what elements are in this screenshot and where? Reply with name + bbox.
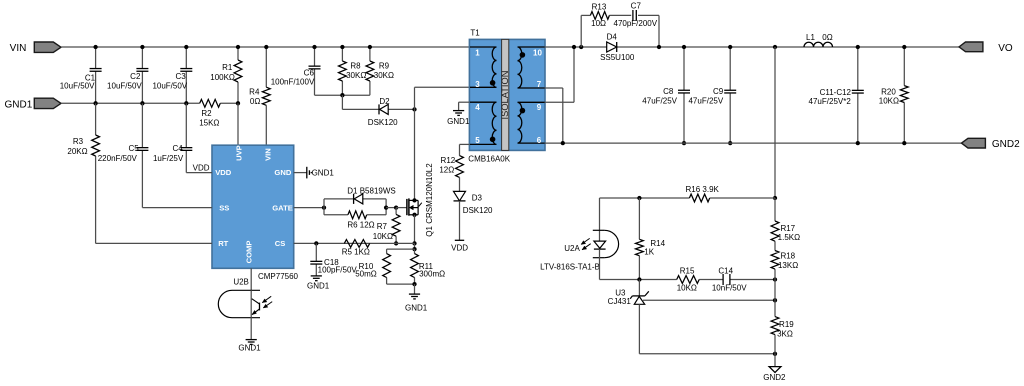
node sense gnd bbox=[412, 282, 416, 286]
svg-text:100pF/50V: 100pF/50V bbox=[318, 265, 358, 274]
svg-text:10uF/50V: 10uF/50V bbox=[152, 82, 187, 91]
svg-text:ISOLATION: ISOLATION bbox=[500, 71, 510, 120]
svg-text:R19: R19 bbox=[779, 320, 794, 329]
svg-text:10KΩ: 10KΩ bbox=[879, 97, 899, 106]
wire COMP bbox=[250, 268, 252, 290]
opto transistor U2B bbox=[218, 277, 272, 317]
resistor R7 bbox=[373, 208, 400, 244]
svg-text:SS: SS bbox=[219, 203, 229, 212]
wire VDD bbox=[186, 163, 212, 172]
svg-text:100KΩ: 100KΩ bbox=[210, 73, 235, 82]
wire snubber bbox=[581, 15, 659, 47]
capacitor C18 bbox=[310, 243, 357, 275]
node GND2-C11 bbox=[856, 141, 860, 145]
svg-text:CJ431: CJ431 bbox=[608, 297, 632, 306]
resistor R4 bbox=[249, 47, 270, 145]
svg-text:R8: R8 bbox=[350, 61, 361, 70]
transformer T1 body bbox=[468, 28, 545, 163]
resistor R12 bbox=[439, 156, 463, 178]
wire pin7 down bbox=[545, 88, 563, 143]
node VIN-C2 bbox=[140, 45, 144, 49]
node GND2-C9 bbox=[728, 141, 732, 145]
svg-text:R17: R17 bbox=[780, 224, 795, 233]
wire U2A anode bbox=[599, 198, 601, 241]
svg-text:1.5KΩ: 1.5KΩ bbox=[778, 233, 800, 242]
svg-text:U2A: U2A bbox=[564, 244, 580, 253]
port GND2 bbox=[962, 138, 1021, 150]
node R8 bottom bbox=[340, 93, 344, 97]
svg-text:R7: R7 bbox=[377, 222, 388, 231]
node VIN-R8 bbox=[340, 45, 344, 49]
svg-text:GND: GND bbox=[274, 168, 291, 177]
capacitor C8 bbox=[642, 47, 690, 143]
svg-text:R4: R4 bbox=[249, 87, 260, 96]
wire pin5 bbox=[460, 144, 470, 155]
svg-text:LTV-816S-TA1-B: LTV-816S-TA1-B bbox=[540, 262, 600, 271]
wire SS bbox=[142, 207, 212, 209]
svg-text:0Ω: 0Ω bbox=[250, 97, 260, 106]
ground GND2 symbol bbox=[763, 367, 786, 383]
pin 5 bbox=[475, 136, 480, 145]
node snubber left bbox=[579, 45, 583, 49]
ground GND1 under R11 bbox=[405, 284, 428, 313]
svg-text:R9: R9 bbox=[379, 61, 390, 70]
capacitor C3 bbox=[152, 47, 192, 103]
wire VIN rail bbox=[61, 46, 469, 48]
node GND2-C8 bbox=[682, 141, 686, 145]
svg-text:10uF/50V: 10uF/50V bbox=[107, 82, 142, 91]
node R14 top bbox=[637, 196, 641, 200]
svg-text:R16 3.9K: R16 3.9K bbox=[686, 185, 720, 194]
svg-text:VIN: VIN bbox=[263, 148, 272, 161]
svg-text:47uF/25V: 47uF/25V bbox=[642, 96, 677, 105]
node R7-CS bbox=[394, 241, 398, 245]
svg-text:R5 1KΩ: R5 1KΩ bbox=[342, 248, 370, 257]
wire D1 branch bbox=[324, 198, 386, 200]
svg-text:R6 12Ω: R6 12Ω bbox=[347, 220, 374, 229]
wire gate to R7 bbox=[386, 207, 396, 209]
wire CS bbox=[294, 242, 415, 244]
transistor Q1 bbox=[407, 163, 434, 237]
wire GATE bbox=[294, 207, 324, 209]
diode D2 bbox=[368, 97, 398, 127]
svg-text:R2: R2 bbox=[201, 109, 212, 118]
resistor R13 bbox=[590, 2, 609, 28]
svg-text:R15: R15 bbox=[680, 267, 695, 276]
wire feedback drop bbox=[774, 47, 776, 198]
op-amp U1 CMP77560 body bbox=[212, 145, 294, 268]
wire UVP bbox=[237, 103, 239, 145]
node snubber right bbox=[657, 45, 661, 49]
pin 6 bbox=[537, 136, 542, 145]
wire R17-R18 bbox=[774, 246, 776, 251]
svg-text:GND1: GND1 bbox=[312, 169, 335, 178]
wire pin4 bbox=[459, 101, 470, 103]
port VO bbox=[959, 42, 1013, 54]
node gate split bbox=[322, 205, 326, 209]
resistor R2 bbox=[199, 99, 238, 127]
capacitor C6 bbox=[271, 47, 321, 95]
wire Q1 source bbox=[414, 215, 416, 244]
node CS-Q1 bbox=[412, 241, 416, 245]
node gate-R7 bbox=[394, 205, 398, 209]
node VIN-C6 bbox=[312, 45, 316, 49]
shunt regulator U3 CJ431 bbox=[608, 289, 649, 307]
ground GND1 under U2B bbox=[238, 339, 261, 352]
svg-text:VIN: VIN bbox=[10, 43, 27, 54]
wire sense stub bbox=[414, 243, 416, 249]
svg-text:C8: C8 bbox=[663, 87, 674, 96]
power VDD terminal bbox=[451, 240, 468, 252]
svg-text:VDD: VDD bbox=[215, 168, 232, 177]
svg-text:C3: C3 bbox=[175, 72, 186, 81]
svg-text:5: 5 bbox=[475, 136, 480, 145]
svg-text:C14: C14 bbox=[718, 267, 733, 276]
svg-text:RT: RT bbox=[218, 239, 228, 248]
svg-text:UVP: UVP bbox=[235, 145, 244, 161]
wire fb tap bbox=[774, 280, 776, 301]
svg-text:6: 6 bbox=[537, 136, 542, 145]
svg-text:D4: D4 bbox=[607, 32, 618, 41]
svg-text:1: 1 bbox=[475, 49, 480, 58]
svg-text:R3: R3 bbox=[73, 137, 84, 146]
pin 10 bbox=[533, 49, 542, 58]
svg-text:D1 B5819WS: D1 B5819WS bbox=[347, 186, 395, 195]
ground GND1 under C18 bbox=[307, 276, 330, 291]
capacitor C4 bbox=[153, 103, 192, 172]
svg-text:VO: VO bbox=[998, 43, 1013, 54]
svg-text:COMP: COMP bbox=[245, 241, 254, 264]
svg-text:VDD: VDD bbox=[193, 163, 210, 172]
node fb mid right bbox=[773, 277, 777, 281]
svg-text:13KΩ: 13KΩ bbox=[778, 261, 798, 270]
svg-text:DSK120: DSK120 bbox=[463, 206, 493, 215]
node fb top bbox=[773, 196, 777, 200]
label CMP77560 bbox=[258, 272, 299, 281]
node sense split bbox=[412, 247, 416, 251]
svg-text:47uF/25V*2: 47uF/25V*2 bbox=[809, 97, 852, 106]
node GND1-C2 bbox=[140, 101, 144, 105]
resistor R15 bbox=[677, 267, 700, 293]
node CS-C18 bbox=[314, 241, 318, 245]
svg-text:GND2: GND2 bbox=[763, 373, 786, 382]
svg-text:GND2: GND2 bbox=[992, 139, 1020, 150]
wire U3 cathode bbox=[638, 280, 640, 296]
svg-text:GND1: GND1 bbox=[307, 282, 330, 291]
svg-text:R20: R20 bbox=[881, 87, 896, 96]
node VO-R20 bbox=[902, 45, 906, 49]
svg-text:C4: C4 bbox=[172, 144, 183, 153]
svg-text:30KΩ: 30KΩ bbox=[346, 71, 366, 80]
svg-text:CMP77560: CMP77560 bbox=[258, 272, 299, 281]
svg-text:L1: L1 bbox=[806, 33, 815, 42]
svg-text:3KΩ: 3KΩ bbox=[777, 329, 793, 338]
capacitor C1 bbox=[60, 47, 102, 103]
resistor R19 bbox=[771, 300, 794, 354]
svg-text:10uF/50V: 10uF/50V bbox=[60, 82, 95, 91]
svg-text:R13: R13 bbox=[592, 2, 607, 11]
wire Q1 drain bbox=[414, 109, 416, 200]
svg-text:R12: R12 bbox=[441, 156, 456, 165]
wire to GND2 sym bbox=[774, 354, 776, 367]
wire R16 net bbox=[600, 197, 776, 199]
resistor R6 bbox=[324, 211, 386, 230]
svg-text:9: 9 bbox=[537, 103, 542, 112]
wire U2A cathode bbox=[599, 249, 601, 279]
wire secondary top bbox=[545, 46, 960, 48]
svg-text:CMB16A0K: CMB16A0K bbox=[468, 154, 510, 163]
wire D3-VDD bbox=[459, 201, 461, 240]
svg-text:GATE: GATE bbox=[272, 203, 293, 212]
svg-text:0Ω: 0Ω bbox=[822, 33, 832, 42]
diode D4 bbox=[600, 32, 635, 62]
resistor R10 bbox=[355, 249, 390, 284]
svg-text:30KΩ: 30KΩ bbox=[374, 71, 394, 80]
svg-text:C7: C7 bbox=[631, 1, 642, 10]
svg-text:10KΩ: 10KΩ bbox=[373, 232, 393, 241]
wire gate loop left bbox=[323, 199, 325, 215]
svg-text:CS: CS bbox=[275, 239, 286, 248]
wire pin9 up bbox=[545, 47, 575, 102]
node VIN-C3 bbox=[184, 45, 188, 49]
svg-text:100nF/100V: 100nF/100V bbox=[271, 78, 315, 87]
wire U2B emitter bbox=[250, 318, 252, 340]
svg-text:50mΩ: 50mΩ bbox=[355, 269, 377, 278]
wire clamp bbox=[342, 95, 414, 109]
pin 4 bbox=[475, 103, 480, 112]
capacitor C5 bbox=[98, 103, 149, 207]
wire R12-D3 bbox=[459, 177, 461, 191]
svg-text:C11-C12: C11-C12 bbox=[820, 88, 852, 97]
svg-text:220nF/50V: 220nF/50V bbox=[98, 154, 138, 163]
node fb mid left bbox=[637, 277, 641, 281]
svg-text:R18: R18 bbox=[780, 252, 795, 261]
pin 3 bbox=[475, 80, 480, 89]
node VO-C11 bbox=[856, 45, 860, 49]
svg-text:GND1: GND1 bbox=[405, 304, 428, 313]
svg-text:7: 7 bbox=[537, 80, 542, 89]
port VIN bbox=[10, 42, 61, 54]
svg-text:C6: C6 bbox=[304, 69, 315, 78]
node VIN-R4 bbox=[264, 45, 268, 49]
wire fb mid bbox=[600, 279, 776, 281]
svg-text:1uF/25V: 1uF/25V bbox=[153, 154, 184, 163]
node VIN-C1 bbox=[93, 45, 97, 49]
pin 7 bbox=[537, 80, 542, 89]
resistor R16 bbox=[686, 185, 720, 202]
svg-text:20KΩ: 20KΩ bbox=[67, 147, 87, 156]
node VIN-R1 bbox=[236, 45, 240, 49]
svg-text:D3: D3 bbox=[472, 193, 483, 202]
svg-text:SS5U100: SS5U100 bbox=[600, 53, 635, 62]
wire RT bbox=[96, 242, 212, 244]
winding 9-6 bbox=[518, 102, 545, 143]
winding 10-7 bbox=[518, 47, 545, 88]
svg-text:C9: C9 bbox=[713, 87, 724, 96]
svg-text:10Ω: 10Ω bbox=[591, 19, 606, 28]
resistor R11 bbox=[411, 249, 446, 284]
pin 9 bbox=[537, 103, 542, 112]
diode D3 bbox=[454, 191, 494, 215]
wire C6 bottom bbox=[315, 94, 370, 96]
resistor R18 bbox=[771, 251, 798, 280]
inductor L1 bbox=[804, 33, 833, 47]
svg-text:C5: C5 bbox=[128, 144, 139, 153]
svg-text:D2: D2 bbox=[379, 97, 390, 106]
svg-text:300mΩ: 300mΩ bbox=[419, 269, 445, 278]
node VO-fb bbox=[773, 45, 777, 49]
svg-text:1K: 1K bbox=[644, 247, 654, 256]
svg-text:U3: U3 bbox=[615, 289, 626, 298]
wire sense bottom bbox=[387, 283, 415, 285]
wire sense left bbox=[387, 248, 415, 250]
svg-text:C2: C2 bbox=[130, 72, 141, 81]
svg-text:10: 10 bbox=[533, 49, 542, 58]
node GND2-R20 bbox=[902, 141, 906, 145]
svg-text:T1: T1 bbox=[470, 28, 480, 37]
resistor R8 bbox=[339, 47, 367, 95]
node Q1 source bbox=[412, 213, 416, 217]
svg-text:U2B: U2B bbox=[233, 277, 249, 286]
resistor R9 bbox=[366, 47, 394, 95]
node Q1 drain bbox=[412, 198, 416, 202]
wire gate to Q1 bbox=[396, 207, 407, 209]
port GND1 bbox=[5, 98, 61, 110]
svg-text:15KΩ: 15KΩ bbox=[199, 119, 219, 128]
opto LED U2A bbox=[540, 230, 618, 271]
svg-text:R1: R1 bbox=[222, 63, 233, 72]
resistor R1 bbox=[210, 47, 242, 103]
resistor R20 bbox=[879, 47, 908, 143]
wire GND2 rail bbox=[545, 142, 963, 144]
winding 4-5 bbox=[470, 102, 497, 144]
svg-text:DSK120: DSK120 bbox=[368, 118, 398, 127]
svg-text:3: 3 bbox=[475, 80, 480, 89]
svg-text:10KΩ: 10KΩ bbox=[677, 284, 697, 293]
svg-text:12Ω: 12Ω bbox=[439, 165, 454, 174]
capacitor C14 bbox=[712, 267, 747, 293]
node fb gnd bbox=[773, 352, 777, 356]
capacitor C11-C12 bbox=[809, 47, 864, 143]
node pin7 gnd bbox=[561, 141, 565, 145]
ground GND1 at pin 4 bbox=[447, 102, 470, 126]
svg-text:GND1: GND1 bbox=[238, 343, 261, 352]
resistor R14 bbox=[636, 198, 666, 280]
capacitor C2 bbox=[107, 47, 148, 103]
node drain top bbox=[412, 107, 416, 111]
node U3 ref bbox=[773, 298, 777, 302]
svg-text:47uF/25V: 47uF/25V bbox=[688, 96, 723, 105]
capacitor C9 bbox=[688, 47, 736, 143]
wire gate loop right bbox=[385, 199, 387, 215]
svg-text:GND1: GND1 bbox=[5, 99, 33, 110]
node pin9 join bbox=[572, 45, 576, 49]
svg-text:GND1: GND1 bbox=[447, 117, 470, 126]
resistor R3 bbox=[67, 103, 99, 243]
wire pin3 link bbox=[415, 87, 470, 109]
svg-text:VDD: VDD bbox=[451, 243, 468, 252]
node gate join bbox=[384, 205, 388, 209]
svg-text:470pF/200V: 470pF/200V bbox=[614, 19, 658, 28]
node VO-C8 bbox=[682, 45, 686, 49]
winding 1-3 bbox=[470, 47, 497, 87]
node VO-C9 bbox=[728, 45, 732, 49]
wire U3 anode bbox=[639, 304, 775, 354]
svg-text:10nF/50V: 10nF/50V bbox=[712, 284, 747, 293]
node GND1-C3 bbox=[184, 101, 188, 105]
capacitor C7 bbox=[614, 1, 658, 28]
wire GND1 rail bbox=[61, 102, 200, 104]
resistor R17 bbox=[771, 198, 800, 246]
resistor R5 bbox=[342, 240, 370, 257]
diode D1 bbox=[347, 186, 395, 204]
wire U3 ref bbox=[643, 299, 775, 301]
node UVP bbox=[236, 101, 240, 105]
pin 1 bbox=[475, 49, 480, 58]
svg-text:4: 4 bbox=[475, 103, 480, 112]
node VIN-R9 bbox=[368, 45, 372, 49]
svg-text:Q1 CRSM120N10L2: Q1 CRSM120N10L2 bbox=[425, 163, 434, 237]
node GND1-C1 bbox=[93, 101, 97, 105]
ground GND1 at U1 GND pin bbox=[294, 167, 335, 179]
